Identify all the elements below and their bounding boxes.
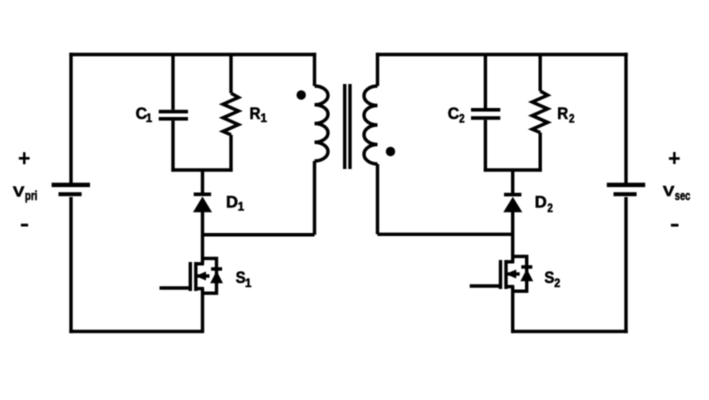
wire: S1 source stub to channel [196, 287, 205, 290]
S1 body arrow (N-channel) [196, 272, 207, 281]
S1 body terminal line [196, 274, 210, 277]
wire: secondary right rail top [624, 53, 627, 183]
wire: R1 bottom lead [229, 135, 232, 172]
wire: C1 top lead [171, 55, 174, 110]
transformer core [345, 84, 350, 169]
svg-text:D: D [535, 193, 547, 212]
wire: snubber to diode D1 stem [201, 170, 204, 193]
label C1 [136, 104, 153, 125]
capacitor C2 [471, 55, 500, 172]
wire: C1 bottom lead [171, 121, 174, 172]
svg-text:V: V [663, 183, 675, 200]
svg-text:V: V [13, 184, 25, 201]
svg-text:1: 1 [245, 278, 252, 290]
wire: S2 gate lead [470, 284, 501, 287]
wire: D2 anode to S2 drain (junction with secondary winding return) [511, 211, 514, 262]
wire: S1 gate lead [160, 286, 191, 289]
wire: secondary winding bottom lead [376, 164, 379, 234]
label R2 [557, 104, 574, 125]
svg-text:2: 2 [569, 114, 575, 126]
wire: secondary winding top lead [376, 53, 379, 86]
svg-text:2: 2 [554, 278, 560, 290]
S2 channel bar [504, 260, 507, 289]
wire: secondary top rail [376, 53, 628, 56]
wire: S1 drain-source outer loop [203, 258, 217, 293]
resistor R1 [223, 55, 239, 172]
wire: primary top rail [69, 53, 316, 56]
label S2 [544, 268, 560, 290]
wire: S2 drain-source outer loop [513, 256, 527, 291]
wire: snubber box bottom (C2/R2 join) [484, 168, 542, 171]
wire: snubber to diode D2 stem [511, 170, 514, 193]
wire: S1 drain stub to channel [196, 262, 205, 265]
S2 gate bar [499, 260, 502, 289]
svg-text:R: R [557, 104, 568, 123]
wire: secondary right rail bottom [624, 197, 627, 333]
S1 body diode [210, 267, 223, 283]
transistor S2 (power MOSFET with body diode) [470, 256, 534, 291]
resistor R2 [532, 55, 548, 172]
wire: D1 anode to S1 drain (junction with primary winding return) [201, 211, 204, 264]
wire: R1 top lead [229, 55, 232, 94]
primary winding coil (4 turns) [315, 86, 329, 161]
label C2 [448, 104, 465, 125]
wire: primary winding bottom return [203, 233, 315, 236]
wire: C2 top lead [484, 55, 487, 109]
diode D1 [193, 193, 212, 213]
svg-text:1: 1 [261, 113, 268, 125]
wire: primary left rail top (battery + to top rail) [69, 53, 72, 183]
S2 body terminal line [506, 272, 520, 275]
plus sign primary [19, 152, 30, 164]
wire: R2 top lead [539, 55, 542, 92]
svg-text:S: S [544, 268, 554, 287]
diode D2 [503, 193, 522, 213]
polarity dot secondary [386, 147, 395, 156]
label R1 [250, 104, 268, 125]
svg-text:R: R [250, 104, 261, 123]
wire: primary bottom rail [69, 330, 202, 333]
minus sign secondary [671, 224, 679, 227]
svg-text:pri: pri [25, 188, 38, 203]
minus sign primary [21, 224, 28, 227]
transformer T1 primary winding [315, 53, 329, 235]
S2 body diode [520, 265, 533, 281]
wire: secondary winding bottom return [378, 233, 513, 236]
S1 gate bar [189, 262, 192, 291]
wire: primary left rail bottom (battery - to bottom rail) [69, 197, 72, 333]
S1 channel bar [194, 262, 197, 291]
C1 plates [159, 110, 188, 121]
polarity dot primary [297, 90, 306, 99]
C2 plates [471, 108, 500, 120]
battery Vsec [607, 183, 645, 197]
transistor S1 (power MOSFET with body diode) [160, 258, 224, 293]
wire: S2 drain stub to channel [506, 260, 515, 263]
wire: primary winding bottom lead [313, 161, 316, 235]
R1 zigzag body [223, 93, 239, 135]
label D2 [535, 193, 553, 215]
svg-text:1: 1 [238, 202, 245, 214]
svg-text:D: D [226, 192, 238, 211]
wire: C2 bottom lead [484, 120, 487, 172]
label Vsec [663, 183, 690, 203]
wire: primary winding top lead [313, 53, 316, 86]
label S1 [236, 268, 252, 290]
svg-text:1: 1 [146, 113, 153, 125]
capacitor C1 [159, 55, 188, 172]
plus sign secondary [669, 152, 680, 164]
R2 zigzag body [532, 91, 548, 133]
wire: S1 source to bottom rail [201, 289, 204, 334]
wire: S2 source to bottom rail [511, 287, 514, 334]
svg-text:2: 2 [547, 203, 553, 215]
label Vpri [13, 184, 38, 204]
svg-text:C: C [448, 104, 460, 123]
S2 body arrow (N-channel) [506, 270, 517, 279]
wire: R2 bottom lead [539, 133, 542, 172]
battery Vpri [52, 183, 90, 197]
wire: snubber box bottom (C1/R1 join) [171, 168, 232, 171]
wire: secondary bottom rail [511, 330, 628, 333]
transformer T1 secondary winding [364, 53, 378, 235]
wire: S2 source stub to channel [506, 285, 515, 288]
label D1 [226, 192, 245, 213]
svg-text:2: 2 [459, 113, 465, 125]
svg-text:sec: sec [675, 188, 691, 203]
secondary winding coil (4 turns) [364, 86, 378, 164]
